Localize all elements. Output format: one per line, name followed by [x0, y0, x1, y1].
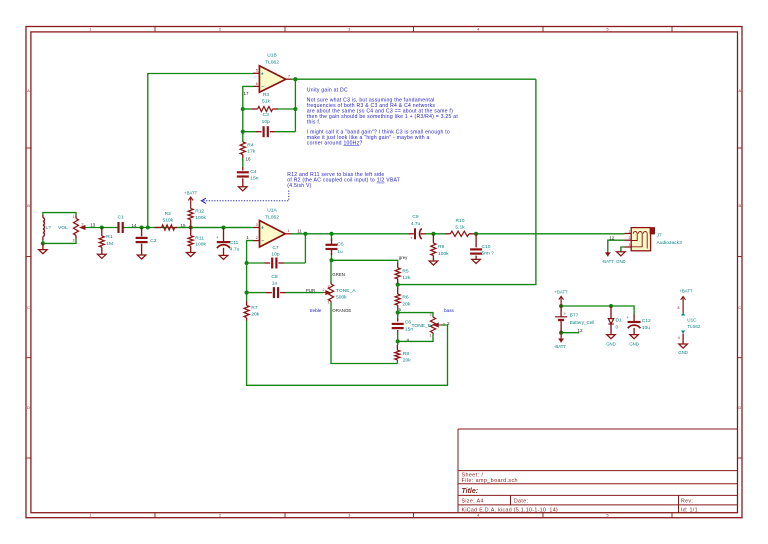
svg-text:8: 8: [678, 306, 680, 310]
svg-text:4.7u: 4.7u: [411, 221, 421, 227]
junction: [245, 261, 249, 265]
svg-text:A: A: [27, 88, 30, 93]
svg-text:C1: C1: [117, 214, 124, 220]
ground below C10: [472, 259, 481, 263]
svg-text:ORANGE: ORANGE: [332, 308, 351, 313]
svg-text:R12: R12: [195, 209, 204, 215]
wire: TONE_B bottom connection: [398, 334, 433, 341]
junction: [293, 107, 297, 111]
wire: C8 row to TONE_A wiper: [247, 292, 266, 294]
title block: [458, 429, 738, 513]
svg-text:AudioJack3: AudioJack3: [657, 240, 683, 246]
svg-text:C: C: [738, 305, 741, 310]
svg-text:5.1k: 5.1k: [455, 224, 465, 230]
wire: input rail VOL wiper to C1: [81, 227, 118, 229]
svg-text:1u: 1u: [272, 280, 278, 286]
svg-text:Id: 1/1: Id: 1/1: [681, 507, 698, 513]
diode D1: [608, 306, 622, 335]
svg-text:17: 17: [243, 91, 249, 96]
svg-text:R1: R1: [106, 234, 113, 240]
svg-text:R9: R9: [438, 244, 445, 250]
power flag +BATT (R12): [184, 191, 198, 209]
svg-text:500k: 500k: [336, 295, 347, 301]
svg-text:12: 12: [577, 328, 583, 333]
capacitor C5: [326, 239, 344, 256]
resistor R4: [240, 142, 256, 160]
connector J7 AudioJack3: [625, 227, 683, 251]
junction: [559, 331, 563, 335]
svg-text:14: 14: [131, 223, 137, 228]
svg-text:−: −: [261, 84, 264, 90]
wire: U1A output row: [292, 233, 409, 235]
svg-text:100k: 100k: [195, 241, 206, 247]
svg-text:TL062: TL062: [265, 60, 279, 66]
svg-text:C10: C10: [482, 244, 491, 250]
wire: U1A - input column: [247, 241, 253, 301]
svg-text:Rev:: Rev:: [681, 499, 693, 505]
ground at jack: [616, 252, 626, 264]
dashed note arrow to +BATT: [203, 191, 289, 201]
wire: R3 feedback row: [243, 108, 252, 110]
svg-text:C8: C8: [271, 274, 278, 280]
svg-text:1: 1: [328, 301, 330, 305]
svg-text:C7: C7: [272, 245, 279, 251]
title block text: [462, 473, 698, 514]
junction: [41, 241, 45, 245]
wire: battery negative stub: [561, 332, 579, 334]
svg-text:R8: R8: [403, 351, 410, 357]
svg-text:Battery_Cell: Battery_Cell: [570, 320, 595, 325]
capacitor C3: [256, 112, 275, 137]
svg-text:TL062: TL062: [687, 324, 700, 329]
wire: C1 to R2: [123, 227, 251, 229]
svg-text:R6: R6: [402, 295, 409, 301]
svg-text:1: 1: [73, 215, 75, 219]
svg-text:C: C: [27, 305, 30, 310]
wire: jack ring pin to -BATT: [608, 240, 625, 251]
svg-text:1u: 1u: [337, 249, 343, 255]
svg-text:GND: GND: [606, 342, 616, 347]
svg-text:KiCad E.D.A. kicad (5.1.10-1-: KiCad E.D.A. kicad (5.1.10-1-10_14): [462, 507, 558, 513]
wire: C9 to R10: [426, 233, 446, 235]
resistor R5: [395, 263, 411, 283]
junction: [221, 225, 225, 229]
svg-text:-BATT: -BATT: [602, 259, 614, 264]
resistor R3: [252, 92, 278, 112]
wire: R2 to U1A + input: [177, 227, 253, 229]
svg-text:+BATT: +BATT: [555, 290, 569, 295]
svg-text:20k: 20k: [402, 301, 410, 307]
svg-text:bass: bass: [444, 308, 455, 313]
ground below D1: [606, 335, 616, 347]
wire: treble column down and left to R5/R6 node: [398, 79, 536, 284]
svg-text:0: 0: [616, 324, 619, 330]
svg-text:C11: C11: [230, 240, 239, 246]
resistor R7: [244, 301, 260, 321]
wire: R8 bottom lead segment: [396, 361, 398, 364]
junction: [559, 304, 563, 308]
junction: [329, 232, 333, 236]
junction: [396, 311, 400, 315]
wire: R4 to C4 node 16: [242, 158, 244, 167]
svg-text:TL062: TL062: [265, 214, 279, 220]
svg-text:51k: 51k: [262, 98, 270, 104]
junction: [146, 225, 150, 229]
ground below R1: [98, 254, 107, 258]
capacitor C8: [266, 274, 286, 298]
svg-text:4: 4: [678, 336, 680, 340]
op-amp U1B: [253, 52, 292, 92]
svg-text:+BATT: +BATT: [679, 289, 693, 294]
junction: [396, 339, 400, 343]
svg-text:TONE_A: TONE_A: [336, 288, 356, 294]
svg-text:12: 12: [609, 235, 615, 240]
capacitor C1: [117, 214, 124, 233]
resistor R8: [395, 345, 411, 364]
svg-text:2: 2: [82, 223, 84, 227]
svg-text:Unity gain at DC: Unity gain at DC: [307, 87, 348, 93]
ground below C12: [629, 335, 639, 347]
svg-text:treble: treble: [310, 308, 322, 313]
note text block: unity gain commentary: [307, 87, 459, 146]
ground below C11: [219, 255, 228, 259]
wire: coil to VOL bottom: [43, 239, 76, 244]
svg-text:this f.: this f.: [307, 120, 321, 126]
junction: [140, 225, 144, 229]
svg-text:R5: R5: [402, 269, 409, 275]
svg-text:1: 1: [430, 333, 432, 337]
svg-text:15: 15: [180, 223, 186, 228]
svg-text:3: 3: [430, 313, 432, 317]
junction: [100, 225, 104, 229]
power flag +BATT (battery): [555, 290, 569, 306]
svg-text:R2: R2: [165, 211, 172, 217]
svg-text:R3: R3: [263, 92, 270, 98]
svg-text:File: amp_board.sch: File: amp_board.sch: [462, 478, 518, 484]
ground below C2: [137, 255, 146, 259]
ground below C4: [239, 187, 248, 191]
svg-text:then the gain should be someth: then the gain should be something like 1…: [307, 114, 459, 120]
svg-text:-BATT: -BATT: [554, 344, 566, 349]
svg-text:C6: C6: [405, 319, 412, 325]
svg-text:C12: C12: [642, 318, 651, 324]
junction: [293, 77, 297, 81]
wire: U1B output to treble column: [292, 78, 536, 80]
wire: C6 to R8 node: [397, 332, 399, 346]
svg-text:B: B: [27, 203, 30, 208]
wire: U1A output down to C7: [304, 234, 306, 263]
resistor R11: [188, 228, 206, 253]
svg-text:grey: grey: [399, 255, 408, 260]
svg-text:VOL: VOL: [58, 225, 68, 231]
wire: U1B output feedback column: [294, 79, 296, 132]
resistor R10: [445, 218, 475, 237]
ground below R11: [186, 253, 195, 257]
wire: R7 bottom loop to TONE_B wiper: [247, 321, 448, 386]
potentiometer TONE_A: [323, 283, 357, 305]
svg-text:5nn ?: 5nn ?: [482, 251, 495, 257]
ground below U1C: [678, 344, 688, 355]
capacitor C7: [265, 245, 285, 269]
junction: [609, 304, 613, 308]
battery BT? Battery_Cell: [555, 306, 594, 333]
svg-text:2: 2: [629, 236, 631, 240]
wire: TONE_A top column: [330, 260, 332, 282]
wire: C5 column: [331, 234, 333, 241]
svg-text:100k: 100k: [438, 251, 449, 257]
svg-text:10u: 10u: [642, 325, 650, 331]
svg-text:+BATT: +BATT: [184, 191, 198, 196]
svg-text:U1A: U1A: [267, 208, 277, 214]
svg-text:R7: R7: [251, 305, 258, 311]
capacitor C11 polarized: [216, 228, 240, 256]
note text block: R12/R11 bias commentary: [287, 172, 400, 189]
svg-text:2: 2: [256, 236, 258, 240]
svg-text:BT?: BT?: [570, 313, 579, 318]
svg-text:+: +: [261, 71, 264, 77]
svg-text:5: 5: [256, 69, 258, 73]
wire: U1B - input column: [243, 86, 253, 142]
svg-text:R4: R4: [247, 142, 254, 148]
capacitor C4: [237, 167, 259, 187]
svg-text:GND: GND: [629, 342, 639, 347]
capacitor C10: [470, 234, 494, 260]
capacitor C9 polarized: [409, 214, 426, 240]
svg-text:1: 1: [288, 229, 290, 233]
svg-text:C2: C2: [150, 238, 157, 244]
svg-text:3: 3: [73, 239, 75, 243]
wire: C5 node to tone stack top: [332, 260, 398, 263]
power flag +BATT (U1C): [679, 289, 693, 313]
potentiometer VOL: [58, 215, 85, 243]
junction: [303, 232, 307, 236]
wire: R5/R6 junction segment: [397, 283, 399, 288]
wire: coil to VOL top: [43, 213, 76, 216]
svg-text:C9: C9: [412, 214, 419, 220]
svg-text:17k: 17k: [247, 148, 255, 154]
junction: [245, 291, 249, 295]
inductor L? pickup coil: [43, 215, 51, 240]
wire: R10 to output jack: [475, 233, 625, 235]
svg-text:+: +: [261, 226, 264, 232]
svg-text:3: 3: [256, 223, 258, 227]
op-amp power unit U1C: [678, 306, 701, 344]
wire: battery positive rail: [561, 306, 634, 314]
svg-text:6: 6: [256, 82, 258, 86]
svg-text:510k: 510k: [162, 218, 173, 224]
svg-text:Date:: Date:: [514, 499, 528, 505]
svg-text:PUR: PUR: [306, 288, 315, 293]
wire: tap up to U1B + input: [148, 74, 253, 228]
svg-text:D: D: [738, 405, 741, 410]
svg-text:A: A: [738, 88, 741, 93]
junction: [431, 232, 435, 236]
svg-text:16: 16: [245, 157, 251, 162]
svg-text:TONE_B: TONE_B: [412, 323, 431, 329]
svg-text:L?: L?: [46, 225, 52, 231]
svg-text:1M: 1M: [106, 241, 113, 247]
svg-text:100k: 100k: [195, 215, 206, 221]
svg-text:2: 2: [443, 323, 445, 327]
svg-text:U1C: U1C: [687, 317, 697, 322]
svg-text:D: D: [27, 405, 30, 410]
svg-text:Size: A4: Size: A4: [462, 499, 484, 505]
svg-text:C5: C5: [337, 242, 344, 248]
svg-text:C4: C4: [250, 169, 257, 175]
capacitor C2: [136, 228, 157, 256]
wire: R6 to C6 node: [397, 308, 399, 318]
junction: [189, 225, 193, 229]
junction: [241, 130, 245, 134]
wire: TONE_A bottom to R8 bottom: [331, 303, 397, 364]
svg-text:4.7u: 4.7u: [230, 247, 240, 253]
svg-text:J7: J7: [657, 233, 662, 239]
svg-text:12k: 12k: [402, 275, 410, 281]
ground below R9: [429, 261, 438, 265]
svg-text:15n: 15n: [250, 175, 258, 181]
resistor R9: [431, 234, 449, 261]
svg-text:20k: 20k: [403, 358, 411, 364]
ground below coil: [42, 243, 44, 249]
svg-text:3: 3: [629, 243, 631, 247]
svg-text:B: B: [738, 203, 741, 208]
op-amp U1A: [253, 208, 292, 247]
svg-text:D1: D1: [616, 317, 623, 323]
svg-text:R10: R10: [456, 218, 465, 224]
svg-text:3: 3: [328, 284, 330, 288]
svg-text:Title:: Title:: [462, 488, 479, 495]
resistor R1: [99, 228, 113, 255]
svg-text:(4.5ish V): (4.5ish V): [287, 183, 311, 189]
power flag -BATT (battery): [554, 333, 566, 349]
junction: [474, 232, 478, 236]
svg-text:2: 2: [323, 288, 325, 292]
capacitor C6: [392, 318, 414, 333]
resistor R12: [188, 209, 206, 228]
svg-text:7: 7: [288, 75, 290, 79]
svg-text:U1B: U1B: [267, 52, 277, 58]
junction: [396, 283, 400, 287]
svg-text:11: 11: [297, 229, 302, 234]
wire: C3 feedback row: [243, 131, 256, 133]
svg-text:1: 1: [629, 229, 631, 233]
potentiometer TONE_B: [412, 313, 445, 338]
power flag -BATT at jack: [602, 252, 614, 265]
resistor R6: [395, 287, 411, 308]
junction: [329, 258, 333, 262]
svg-text:GND: GND: [678, 350, 688, 355]
svg-text:R11: R11: [195, 235, 204, 241]
svg-text:13: 13: [90, 222, 96, 227]
svg-text:20k: 20k: [251, 312, 259, 318]
wire: TONE_B top connection: [398, 313, 433, 317]
wire: jack sleeve pin to GND: [621, 247, 625, 252]
svg-text:10p: 10p: [262, 119, 270, 125]
capacitor C12 polarized: [627, 314, 652, 335]
svg-text:C3: C3: [263, 112, 270, 118]
resistor R2: [155, 211, 252, 230]
junction: [241, 107, 245, 111]
svg-text:GREN: GREN: [332, 272, 345, 277]
svg-text:GND: GND: [616, 259, 626, 264]
svg-text:−: −: [261, 239, 264, 245]
svg-text:corner around 100Hz?: corner around 100Hz?: [307, 141, 363, 147]
wire: C7 feedback row: [247, 262, 265, 264]
svg-text:10p: 10p: [271, 252, 279, 258]
